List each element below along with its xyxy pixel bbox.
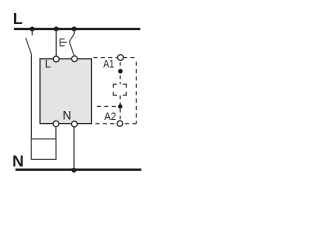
- push-button stub: [73, 29, 75, 33]
- node junction dot 2 on L rail: [54, 27, 59, 32]
- wire box terminal to load: [55, 127, 57, 140]
- node junction dot on N rail: [72, 168, 77, 173]
- dashed wire A1 link: [93, 57, 136, 59]
- wire dot2 to box terminal L: [55, 29, 57, 56]
- wire switch to load: [30, 55, 32, 139]
- dashed wire A2 link: [97, 105, 119, 107]
- node dot above A2: [118, 104, 122, 108]
- relay box K1 body: [40, 59, 92, 124]
- svg-text:A2: A2: [104, 111, 116, 123]
- wire N rail: [16, 168, 142, 170]
- svg-text:N: N: [63, 109, 72, 123]
- terminal circle box top right: [72, 56, 78, 62]
- load lamp box: [31, 139, 56, 160]
- svg-text:N: N: [12, 154, 24, 171]
- svg-text:L: L: [13, 11, 23, 28]
- wire box terminal N to N rail: [73, 127, 75, 170]
- dashed edge right: [135, 59, 137, 124]
- node dot below A1: [118, 69, 123, 74]
- terminal circle box N bottom: [72, 121, 78, 127]
- node junction dot 3 on L rail: [72, 27, 77, 32]
- coil K (dashed, optional): [113, 84, 126, 95]
- node junction dot 1 on L rail: [30, 27, 35, 32]
- svg-text:A1: A1: [103, 59, 114, 71]
- switch S blade: [26, 38, 32, 55]
- svg-text:L: L: [45, 59, 51, 71]
- wire L rail: [14, 28, 140, 30]
- terminal circle box bottom left: [53, 121, 59, 127]
- switch S fixed stub: [31, 29, 33, 35]
- terminal circle A1: [118, 55, 124, 61]
- dashed edge bottom: [95, 123, 136, 125]
- dashed wire coil chain: [119, 62, 121, 123]
- terminal circle A2: [117, 121, 123, 127]
- push-button actuator E: [60, 39, 67, 46]
- push-button blade: [69, 33, 75, 56]
- terminal circle box L top: [53, 56, 59, 62]
